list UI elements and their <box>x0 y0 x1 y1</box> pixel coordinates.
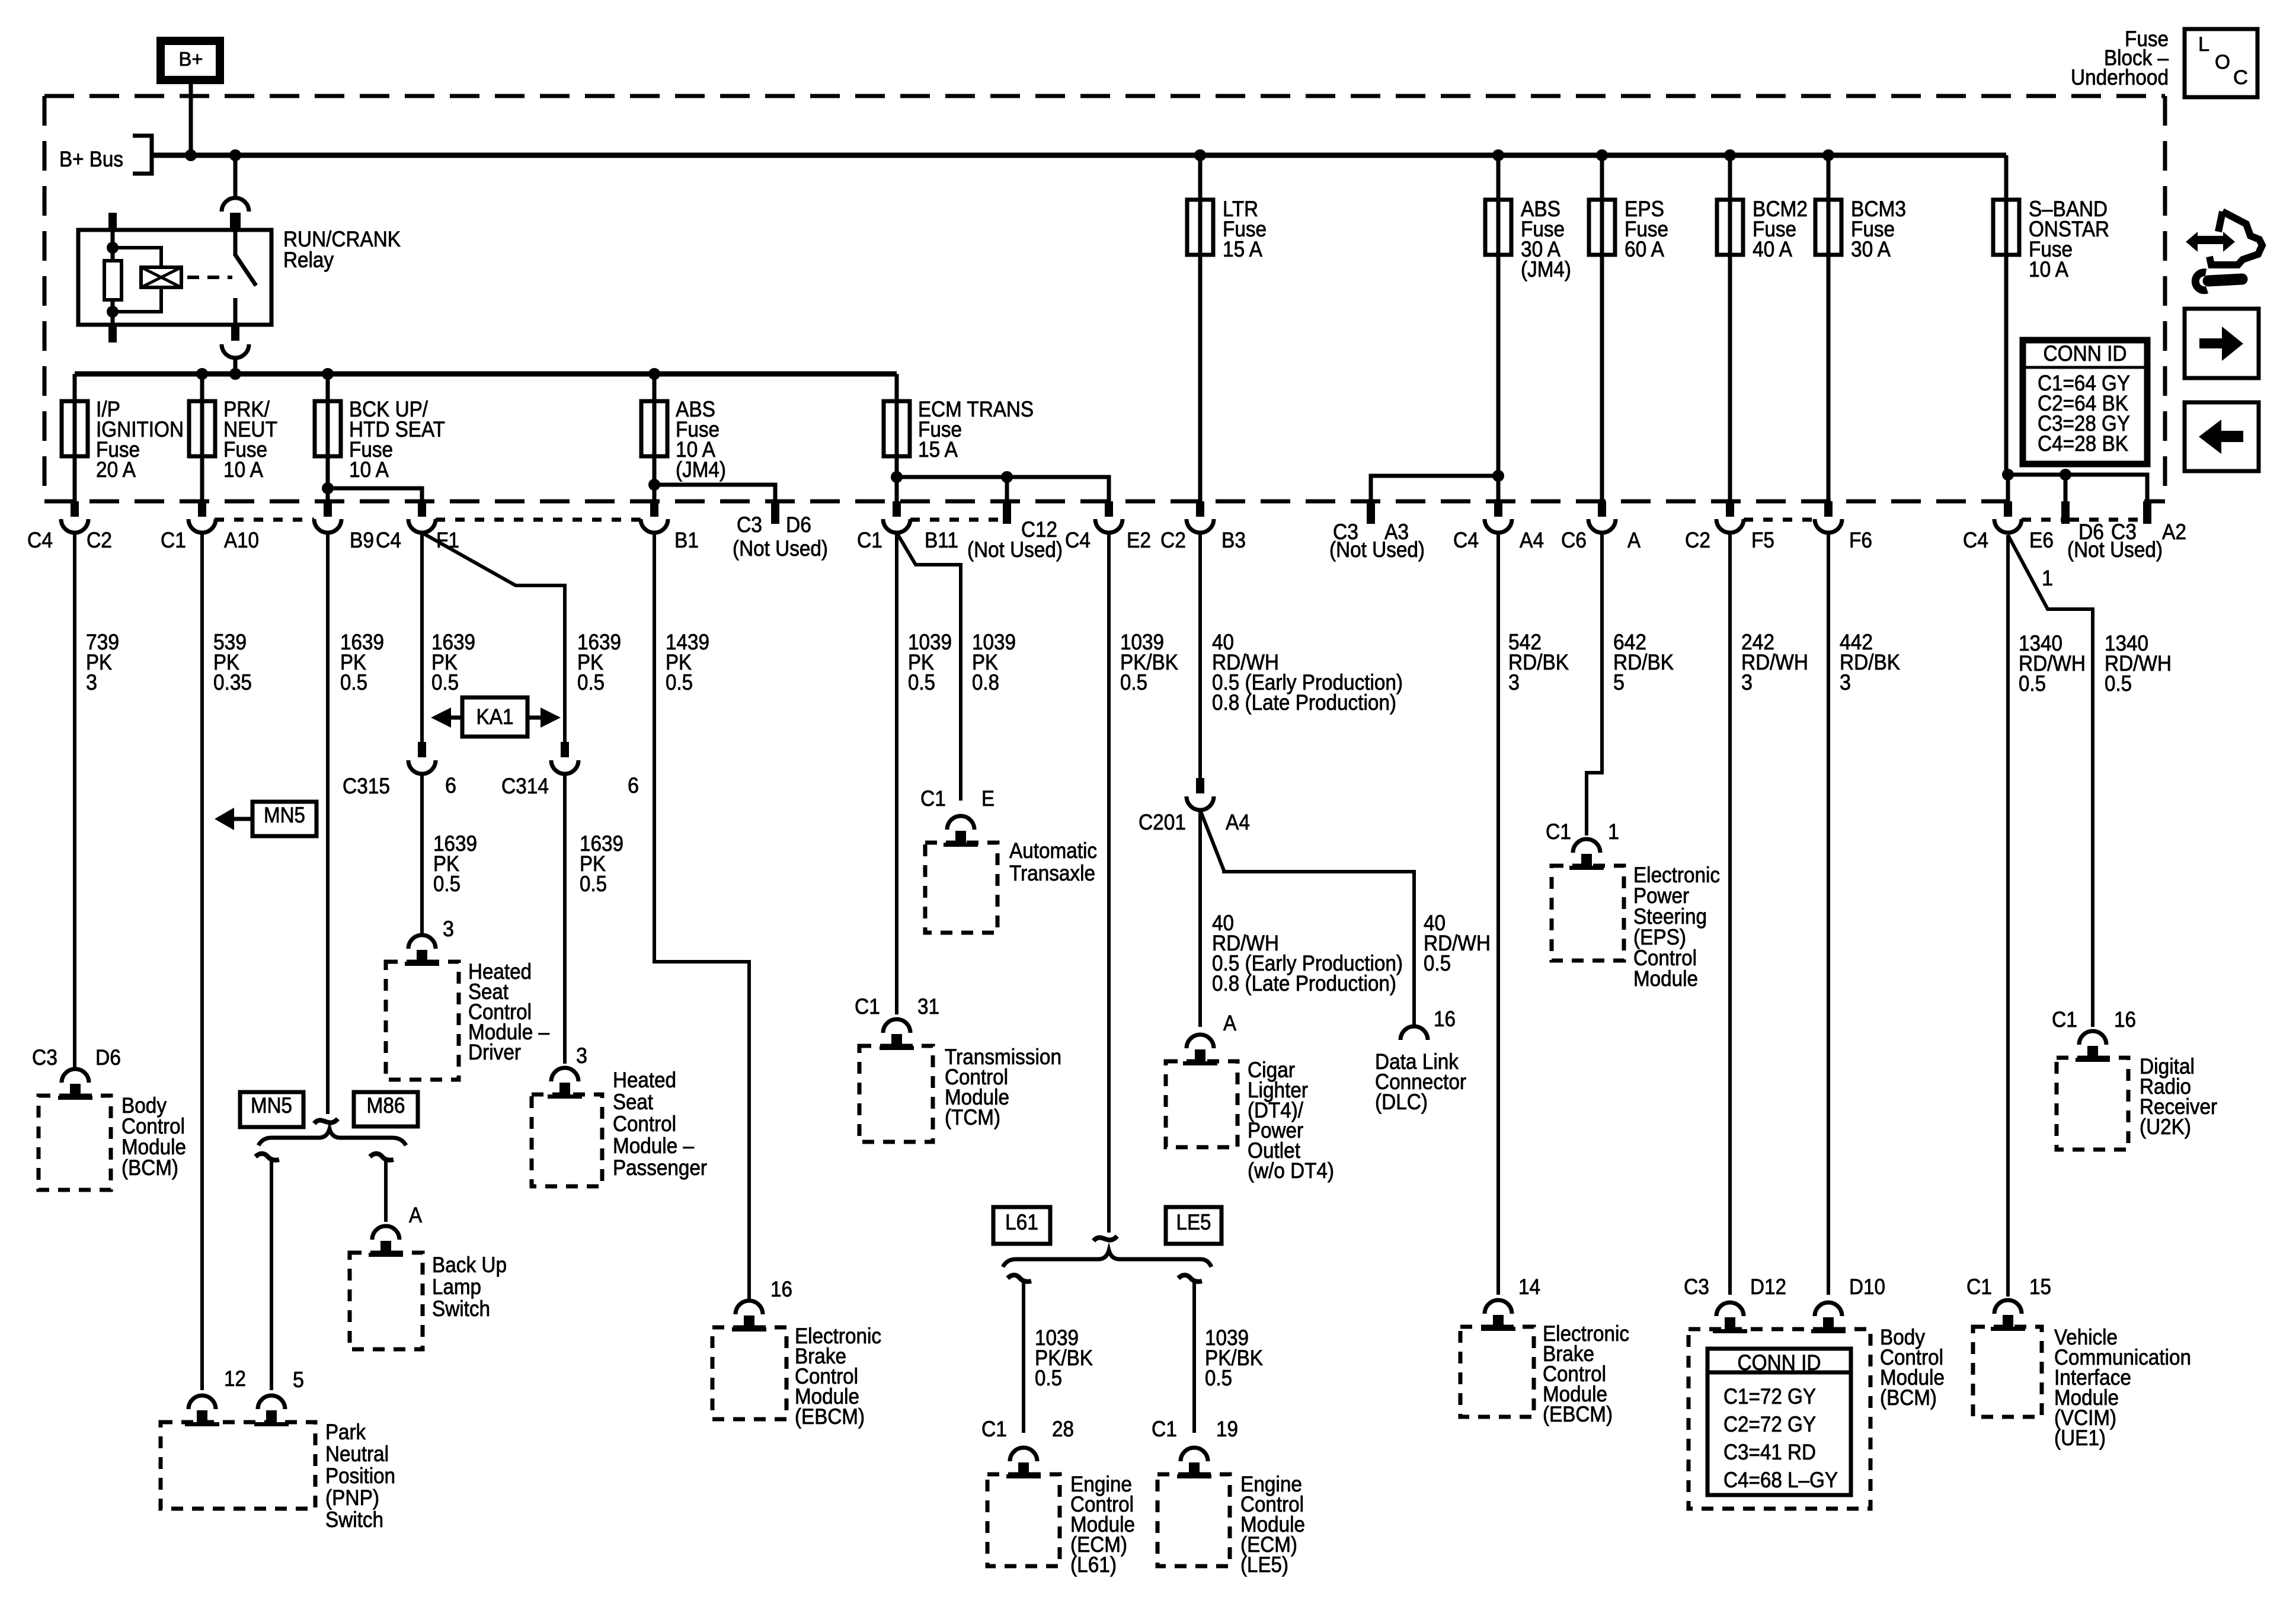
svg-text:3: 3 <box>1741 670 1753 694</box>
fuse PRK/NEUT Fuse 10 A <box>189 401 215 456</box>
junction ABS fuse on ign bus <box>648 368 660 380</box>
svg-text:Position: Position <box>325 1464 395 1488</box>
svg-text:C2: C2 <box>1160 528 1186 552</box>
wire run/crank output bus <box>75 372 897 377</box>
svg-text:31: 31 <box>917 994 939 1019</box>
connector row dashed line <box>2070 518 2143 522</box>
svg-text:C1: C1 <box>1546 820 1571 844</box>
module: Vehicle Communication Interface Module (VCIM) <box>1973 1327 2042 1417</box>
svg-text:0.5: 0.5 <box>580 872 607 896</box>
svg-text:A4: A4 <box>1520 528 1544 552</box>
fuse EPS Fuse 60 A <box>1589 200 1615 255</box>
arrow box left <box>2185 402 2259 471</box>
wire 542 RD/BK to EBCM <box>1496 533 1500 1295</box>
connector C314 pin 6 <box>551 742 578 774</box>
module: Digital Radio Receiver (U2K) <box>2057 1058 2128 1150</box>
svg-text:Switch: Switch <box>432 1297 490 1321</box>
svg-text:C1: C1 <box>1152 1417 1177 1441</box>
svg-text:1: 1 <box>1608 820 1619 844</box>
splice box M86 <box>354 1092 418 1126</box>
connector into EBCM pin 16 <box>732 1301 766 1331</box>
svg-text:C3: C3 <box>32 1045 57 1070</box>
svg-text:(EBCM): (EBCM) <box>1543 1402 1613 1426</box>
connector C1 A10 <box>188 501 216 533</box>
svg-text:C4: C4 <box>27 528 53 552</box>
connector C4 F1 <box>408 501 436 533</box>
svg-text:(Not Used): (Not Used) <box>1329 537 1425 562</box>
junction C12 branch <box>1001 471 1013 483</box>
junction relay feed on bus <box>229 149 241 161</box>
connector row dashed line <box>2022 518 2061 522</box>
fuse ABS Fuse 10 A JM4 <box>641 401 667 456</box>
svg-text:O: O <box>2215 51 2230 73</box>
svg-text:C1: C1 <box>855 994 880 1019</box>
fuse BCM3 Fuse 30 A <box>1815 200 1841 255</box>
svg-text:CONN ID: CONN ID <box>1738 1350 1821 1375</box>
wire stub to D6 not used <box>2064 475 2068 501</box>
svg-text:(UE1): (UE1) <box>2054 1426 2106 1450</box>
junction D6 branch <box>2060 469 2071 481</box>
connector row dashed line <box>1744 518 1815 522</box>
connector into BCM C3 pin D12 <box>1713 1302 1747 1333</box>
fuse I/P IGNITION Fuse 20 A <box>62 401 88 456</box>
wire S-BAND fuse to C4/E6 <box>2006 475 2010 501</box>
svg-text:B+ Bus: B+ Bus <box>59 147 123 171</box>
wire hook L61 drop <box>1008 1275 1031 1282</box>
svg-text:19: 19 <box>1216 1417 1238 1441</box>
svg-text:10 A: 10 A <box>349 457 389 482</box>
svg-text:10 A: 10 A <box>2029 257 2068 281</box>
junction BCM2 Fuse 40 A on B+ bus <box>1724 149 1736 161</box>
svg-text:E2: E2 <box>1127 528 1151 552</box>
svg-text:D10: D10 <box>1849 1275 1885 1299</box>
connector C2 (I/P ignition) <box>61 501 88 533</box>
svg-text:C6: C6 <box>1561 528 1587 552</box>
svg-text:0.5: 0.5 <box>433 872 461 896</box>
fuse LTR Fuse 15 A <box>1187 200 1213 255</box>
svg-text:C3=41 RD: C3=41 RD <box>1723 1440 1816 1464</box>
wire ABS30 fuse to A4 <box>1496 255 1501 501</box>
wire BCM2 fuse to F5 <box>1728 255 1732 501</box>
module: Engine Control Module (ECM) (LE5) <box>1157 1474 1230 1566</box>
wire PRK fuse to connector C1/A10 <box>200 456 204 501</box>
junction B+ drop on bus <box>185 149 197 161</box>
connector C4 E2 <box>1095 501 1123 533</box>
connector into ECM LE5 C1 pin 19 <box>1177 1448 1211 1478</box>
fuse ECM TRANS Fuse 15 A <box>884 401 910 456</box>
relay top connector <box>222 198 249 230</box>
svg-text:40 A: 40 A <box>1753 237 1792 261</box>
connector B1 <box>641 501 668 533</box>
svg-text:C1: C1 <box>1966 1275 1992 1299</box>
svg-text:MN5: MN5 <box>264 803 305 827</box>
connector into VCIM C1 pin 15 <box>1991 1300 2025 1331</box>
relay K: RUN/CRANK Relay box <box>78 230 271 325</box>
connector into BCM <box>58 1069 92 1100</box>
wire bus to fuse BCM3 Fuse 30 A <box>1827 155 1831 200</box>
svg-text:0.5: 0.5 <box>1424 951 1451 975</box>
wire EPS fuse to A <box>1600 255 1604 501</box>
node B+ Bus bracket <box>133 136 152 174</box>
component: Automatic Transaxle <box>925 843 997 933</box>
wire C315 to heated seat module driver <box>420 774 424 936</box>
svg-text:(BCM): (BCM) <box>1880 1385 1937 1410</box>
wire 1039 PK 0.8 to automatic transaxle <box>897 533 961 801</box>
module: Engine Control Module (ECM) (L61) <box>987 1474 1060 1566</box>
svg-text:MN5: MN5 <box>251 1093 292 1118</box>
junction relay output on ign bus <box>229 368 241 380</box>
switch S: Park Neutral Position (PNP) Switch <box>161 1422 315 1509</box>
svg-text:C4: C4 <box>376 528 401 552</box>
svg-text:D6: D6 <box>95 1045 121 1070</box>
svg-text:(U2K): (U2K) <box>2140 1115 2191 1139</box>
svg-text:6: 6 <box>445 773 456 798</box>
splice box MN5 <box>240 1092 303 1127</box>
junction BCK UP branch <box>322 482 334 494</box>
connector row dashed line <box>436 518 641 522</box>
svg-text:(L61): (L61) <box>1070 1553 1117 1577</box>
relay bottom connector <box>222 325 249 358</box>
connector into PNP switch pin 5 <box>254 1395 289 1426</box>
svg-text:B+: B+ <box>179 48 203 70</box>
svg-text:(BCM): (BCM) <box>121 1156 178 1180</box>
wire to coil top <box>113 248 161 267</box>
module: Electronic Brake Control Module (EBCM) <box>1460 1327 1534 1417</box>
component: Cigar Lighter (DT4)/Power Outlet <box>1166 1061 1237 1147</box>
svg-text:5: 5 <box>1613 670 1625 694</box>
component view icon (hood outline with arrow and wrench) <box>2209 212 2262 265</box>
svg-text:C2: C2 <box>87 528 112 552</box>
switch S: Back Up Lamp Switch <box>350 1253 423 1349</box>
connector into automatic transaxle C1 pin E <box>944 816 978 847</box>
svg-text:20 A: 20 A <box>96 457 136 482</box>
svg-text:F6: F6 <box>1849 528 1872 552</box>
svg-text:Seat: Seat <box>613 1090 654 1114</box>
svg-text:L: L <box>2198 33 2209 56</box>
svg-text:B1: B1 <box>674 528 699 552</box>
wire 1039 PK/BK to ECM LE5 <box>1192 1280 1196 1433</box>
svg-text:Automatic: Automatic <box>1009 838 1097 863</box>
wire ECM TRANS fuse to C1 <box>895 456 899 501</box>
svg-text:Back Up: Back Up <box>432 1253 507 1277</box>
connector into TCM C1 pin 31 <box>880 1019 914 1050</box>
svg-text:C1: C1 <box>981 1417 1007 1441</box>
wire LTR fuse to B3 <box>1198 255 1203 501</box>
svg-text:Control: Control <box>613 1112 676 1136</box>
connector C4 A4 <box>1485 501 1512 533</box>
wire C314 to heated seat module passenger <box>563 774 567 1064</box>
fuse BCM2 Fuse 40 A <box>1717 200 1743 255</box>
relay actuation dashed link <box>187 276 232 279</box>
svg-text:0.8 (Late Production): 0.8 (Late Production) <box>1212 690 1396 715</box>
svg-text:Neutral: Neutral <box>325 1442 389 1466</box>
wire 539 PK to PNP switch <box>200 533 204 1390</box>
svg-text:(JM4): (JM4) <box>1521 257 1571 281</box>
svg-text:3: 3 <box>86 670 97 694</box>
wire S-BAND fuse down <box>2004 255 2009 475</box>
wire 1039 PK/BK to L61/LE5 splice <box>1107 533 1111 1233</box>
fuse BCK UP/HTD SEAT Fuse 10 A <box>315 401 341 456</box>
svg-text:C315: C315 <box>343 774 390 798</box>
svg-text:3: 3 <box>443 917 454 941</box>
wire bus to fuse ABS Fuse 30 A JM4 <box>1496 155 1501 200</box>
svg-text:C2: C2 <box>1685 528 1710 552</box>
junction ABS not-used branch <box>648 479 660 491</box>
svg-text:3: 3 <box>1508 670 1520 694</box>
pin stub C3/A3 not used <box>1367 501 1375 524</box>
svg-text:B3: B3 <box>1221 528 1246 552</box>
relay switch bottom pin <box>234 298 238 325</box>
fuse block underhood dashed border top <box>44 94 2165 98</box>
wire branch to A2 not used <box>2008 475 2147 501</box>
svg-text:0.5: 0.5 <box>2019 671 2046 696</box>
svg-text:Module –: Module – <box>613 1134 694 1158</box>
svg-text:(TCM): (TCM) <box>945 1105 1000 1129</box>
wire bus to fuse EPS Fuse 60 A <box>1600 155 1604 200</box>
svg-text:C201: C201 <box>1139 810 1186 834</box>
wire 1039 PK 0.5 to TCM <box>895 533 898 1014</box>
connector into back up lamp switch pin A <box>369 1226 403 1257</box>
svg-text:A: A <box>1627 528 1641 552</box>
svg-text:F5: F5 <box>1751 528 1774 552</box>
connector C2 F5 <box>1716 501 1744 533</box>
connector into ECM L61 C1 pin 28 <box>1006 1448 1041 1478</box>
wire from B+ to B+ bus <box>189 84 193 155</box>
junction PRK fuse on ign bus <box>196 368 208 380</box>
svg-text:(DLC): (DLC) <box>1375 1090 1428 1114</box>
wire BCM3 fuse to F6 <box>1827 255 1831 501</box>
svg-text:(JM4): (JM4) <box>676 457 726 482</box>
svg-text:0.5: 0.5 <box>908 670 935 694</box>
connector into cigar lighter pin A <box>1183 1035 1217 1065</box>
relay coil pin stub top <box>108 213 117 231</box>
svg-text:M86: M86 <box>367 1093 405 1118</box>
splice reference KA1 box with arrows <box>462 697 527 737</box>
svg-text:16: 16 <box>770 1277 792 1301</box>
svg-text:LE5: LE5 <box>1176 1210 1211 1234</box>
svg-text:C2=72 GY: C2=72 GY <box>1723 1412 1816 1436</box>
module: Electronic Power Steering (EPS) Control Module <box>1552 866 1624 961</box>
connector row dashed line <box>215 518 314 522</box>
junction ABS Fuse 30 A JM4 on B+ bus <box>1492 149 1504 161</box>
relay internal coil branch wire <box>111 230 115 325</box>
svg-text:B9: B9 <box>350 528 374 552</box>
splice box LE5 <box>1166 1207 1221 1244</box>
module: Body Control Module (BCM) <box>1689 1329 1870 1509</box>
svg-text:C1: C1 <box>2052 1007 2077 1032</box>
module U: Body Control Module (BCM) <box>39 1096 111 1190</box>
svg-text:A: A <box>1223 1011 1236 1035</box>
wire stub to C12 not used <box>1005 477 1009 501</box>
connector into heated seat control module driver pin 3 <box>405 935 439 966</box>
svg-text:E: E <box>981 786 994 811</box>
wire bus to fuse ECM TRANS Fuse 15 A <box>895 374 899 401</box>
svg-text:60 A: 60 A <box>1625 237 1664 261</box>
splice box L61 <box>993 1207 1050 1244</box>
module: Heated Seat Control Module - Passenger <box>532 1094 602 1186</box>
fuse ABS Fuse 30 A JM4 <box>1485 200 1511 255</box>
svg-text:C: C <box>2233 66 2248 89</box>
junction BCM3 Fuse 30 A on B+ bus <box>1822 149 1834 161</box>
CONN ID table fuse block <box>2022 339 2148 465</box>
wire to coil bottom <box>113 287 161 312</box>
svg-text:C4=68 L–GY: C4=68 L–GY <box>1723 1468 1838 1492</box>
wire bus to fuse I/P IGNITION Fuse 20 A <box>73 374 77 401</box>
splice L61/LE5 bus bar <box>1093 1236 1117 1241</box>
svg-text:15: 15 <box>2029 1275 2051 1299</box>
svg-text:(LE5): (LE5) <box>1240 1553 1288 1577</box>
svg-text:(Not Used): (Not Used) <box>2067 537 2163 562</box>
svg-text:0.5: 0.5 <box>666 670 693 694</box>
svg-text:3: 3 <box>576 1044 587 1068</box>
svg-text:0.5: 0.5 <box>2105 671 2132 696</box>
wire 1639 PK from F1 to C315 <box>420 533 424 742</box>
pin stub C12 not used <box>1003 501 1011 524</box>
wire B+ bus horizontal <box>152 153 2006 158</box>
wire 1340 RD/WH to VCIM <box>2006 535 2010 1297</box>
junction A3 branch <box>1492 470 1504 482</box>
svg-text:0.8 (Late Production): 0.8 (Late Production) <box>1212 971 1396 996</box>
svg-text:0.5: 0.5 <box>577 670 605 694</box>
CONN ID table of BCM <box>1707 1349 1851 1495</box>
svg-text:0.8: 0.8 <box>972 670 999 694</box>
svg-text:14: 14 <box>1518 1275 1540 1299</box>
svg-text:0.5: 0.5 <box>1120 670 1147 694</box>
svg-text:C4: C4 <box>1963 528 1988 552</box>
junction LTR Fuse 15 A on B+ bus <box>1194 149 1206 161</box>
relay switch fixed contact top <box>234 230 238 256</box>
wire relay output to ign bus <box>234 358 238 374</box>
wire I/P fuse to connector C4/C2 <box>73 456 77 501</box>
junction coil top <box>107 242 119 254</box>
wire 1039 PK/BK to ECM L61 <box>1022 1280 1025 1433</box>
connector F6 <box>1815 501 1842 533</box>
svg-text:(w/o DT4): (w/o DT4) <box>1248 1158 1334 1183</box>
connector into EPS control module C1 pin 1 <box>1569 839 1604 870</box>
pin stub D6 not used <box>2061 501 2070 524</box>
svg-text:C1: C1 <box>857 528 882 552</box>
wire 40 RD/WH to cigar lighter <box>1198 810 1202 1027</box>
svg-text:C4: C4 <box>1453 528 1479 552</box>
svg-text:A10: A10 <box>224 528 259 552</box>
splice reference MN5 arrow box <box>252 802 316 836</box>
arrow box right <box>2185 309 2259 378</box>
connector C2 B3 <box>1187 501 1214 533</box>
wire branch to C3/D6 not used <box>654 485 775 501</box>
wire hook from M86 splice <box>370 1154 394 1160</box>
relay coil pin stub bottom <box>108 325 117 343</box>
svg-text:(EBCM): (EBCM) <box>795 1404 865 1429</box>
wire bus to fuse PRK/NEUT Fuse 10 A <box>200 374 204 401</box>
svg-text:3: 3 <box>1840 670 1851 694</box>
svg-text:0.5: 0.5 <box>340 670 367 694</box>
svg-text:D6: D6 <box>786 513 811 537</box>
pin stub C3/D6 not used <box>771 501 779 524</box>
svg-text:16: 16 <box>2114 1007 2136 1032</box>
wire 40 RD/WH to DLC <box>1200 810 1414 1028</box>
svg-text:B11: B11 <box>925 528 958 552</box>
svg-text:10 A: 10 A <box>223 457 263 482</box>
module: Heated Seat Control Module - Driver <box>386 962 459 1080</box>
relay coil (box with X) <box>141 267 181 287</box>
wire hook LE5 drop <box>1178 1275 1202 1282</box>
splice MN5/M86 bus bar <box>314 1119 338 1124</box>
connector into heated seat control module passenger pin 3 <box>548 1068 582 1099</box>
connector C201 pin A4 <box>1187 778 1214 810</box>
fuse block dashed border right <box>2163 96 2167 501</box>
svg-text:15 A: 15 A <box>1223 237 1262 261</box>
pin stub A2 not used <box>2143 501 2151 524</box>
svg-text:0.5: 0.5 <box>1035 1366 1062 1390</box>
svg-text:0.5: 0.5 <box>431 670 459 694</box>
svg-text:1: 1 <box>2042 566 2053 590</box>
wire bus to relay 30 pin <box>234 155 238 198</box>
wire BCK fuse down to B9 <box>326 456 330 501</box>
svg-text:(Not Used): (Not Used) <box>967 537 1063 562</box>
connector into BCM pin D10 <box>1811 1302 1846 1333</box>
wire branch to F1 <box>328 488 422 501</box>
svg-text:12: 12 <box>224 1366 246 1391</box>
junction coil bottom <box>107 306 119 318</box>
svg-text:28: 28 <box>1052 1417 1074 1441</box>
connector into digital radio receiver C1 pin 16 <box>2076 1031 2110 1062</box>
wire hook from MN5 splice <box>255 1154 279 1160</box>
svg-text:KA1: KA1 <box>477 705 514 729</box>
svg-text:Transaxle: Transaxle <box>1009 861 1095 885</box>
svg-text:Lamp: Lamp <box>432 1275 481 1299</box>
junction ECM TRANS branch <box>891 471 903 483</box>
svg-text:A4: A4 <box>1226 810 1250 834</box>
svg-text:15 A: 15 A <box>918 437 958 462</box>
wire 642 RD/BK to EPS module <box>1587 533 1602 836</box>
junction EPS Fuse 60 A on B+ bus <box>1596 149 1608 161</box>
svg-text:5: 5 <box>293 1368 304 1392</box>
wire M86 splice to back up lamp switch pin A <box>384 1159 388 1222</box>
wire branch to C3/A3 not used <box>1371 476 1498 501</box>
fuse block dashed border bottom right piece <box>2144 500 2165 504</box>
svg-text:Park: Park <box>325 1420 366 1444</box>
wire branch to C4/E2 <box>897 477 1109 501</box>
svg-text:L61: L61 <box>1005 1210 1038 1234</box>
connector B9 <box>314 501 341 533</box>
junction S-BAND branch <box>2002 469 2014 481</box>
svg-text:A: A <box>409 1203 422 1227</box>
svg-text:Driver: Driver <box>468 1040 521 1064</box>
svg-text:(PNP): (PNP) <box>325 1486 379 1510</box>
fuse block dashed border bottom <box>44 500 2009 504</box>
svg-text:C4: C4 <box>1065 528 1091 552</box>
svg-text:C3: C3 <box>1684 1275 1709 1299</box>
junction BCK UP fuse on ign bus <box>322 368 334 380</box>
connector into EBCM pin 14 <box>1481 1300 1515 1331</box>
svg-text:30 A: 30 A <box>1851 237 1891 261</box>
svg-text:Underhood: Underhood <box>2071 65 2169 89</box>
connector Data Link Connector pin 16 <box>1400 1026 1428 1040</box>
wire bus to fuse LTR Fuse 15 A <box>1198 155 1203 200</box>
wire 40 RD/WH from B3 to C201 <box>1198 533 1202 779</box>
connector C1 B11 <box>883 501 910 533</box>
svg-text:Heated: Heated <box>613 1068 676 1092</box>
resistor R inside relay <box>104 261 121 300</box>
wire bus to fuse BCK UP/HTD SEAT Fuse 10 A <box>326 374 330 401</box>
svg-text:CONN ID: CONN ID <box>2044 341 2127 366</box>
power symbol B+ box <box>161 41 220 80</box>
wire 739 PK to BCM <box>73 533 76 1070</box>
module: Electronic Brake Control Module (EBCM) <box>712 1327 786 1419</box>
svg-text:E6: E6 <box>2029 528 2054 552</box>
svg-text:Switch: Switch <box>325 1507 383 1532</box>
svg-text:0.35: 0.35 <box>213 670 252 694</box>
